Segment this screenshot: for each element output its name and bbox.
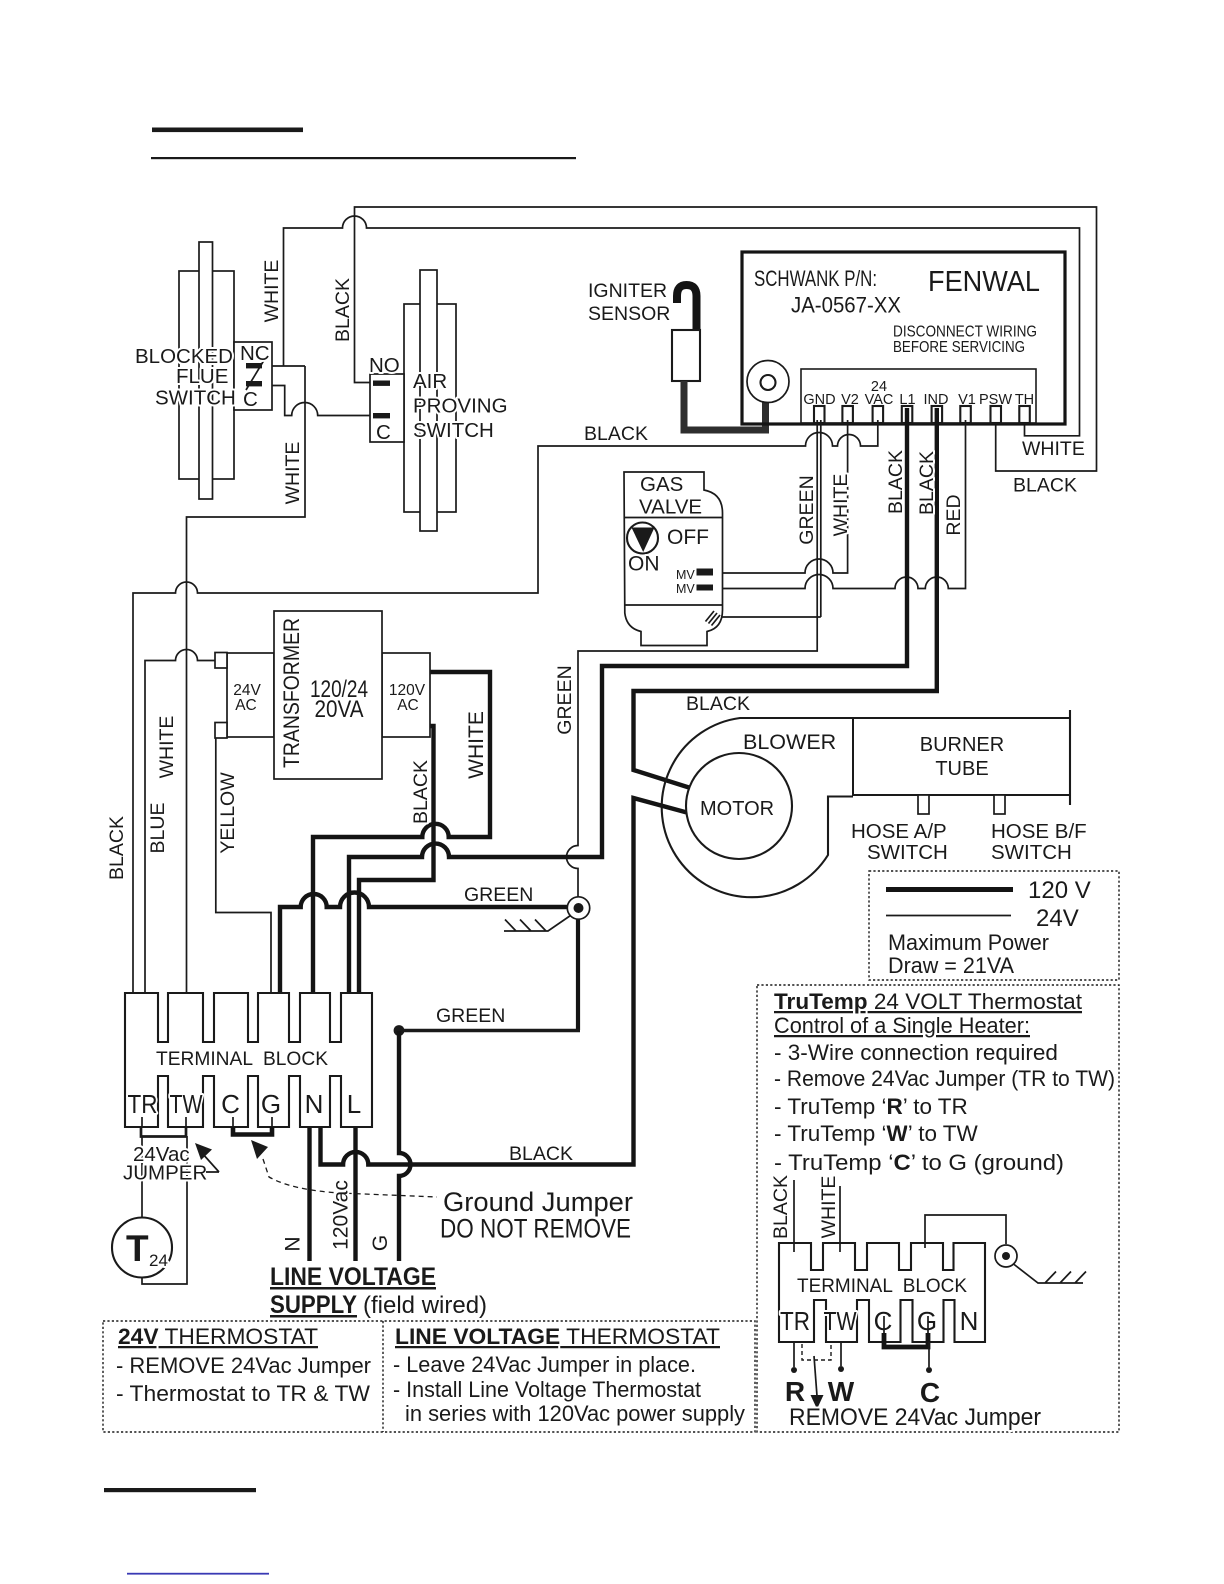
- wire black top rail from air proving NO to FENWAL PSW: [355, 207, 1097, 471]
- svg-text:TERMINAL BLOCK: TERMINAL BLOCK: [797, 1275, 967, 1297]
- label 120V AC: [389, 682, 426, 714]
- wire IND thick to motor: [634, 408, 937, 788]
- svg-text:120Vac: 120Vac: [330, 1180, 353, 1250]
- svg-text:Maximum Power: Maximum Power: [888, 930, 1049, 955]
- wire green horizontal to junction dot: [399, 1029, 580, 1032]
- svg-text:Draw = 21VA: Draw = 21VA: [888, 953, 1014, 978]
- title line 2: [151, 157, 576, 159]
- wire G supply (ground) down: [399, 1031, 411, 1261]
- igniter sensor tip: [677, 285, 697, 332]
- TruTemp info box: [757, 985, 1119, 1432]
- svg-text:BLACK: BLACK: [916, 451, 938, 515]
- label BLACK (TruTemp lead): [770, 1175, 792, 1239]
- igniter sensor cable: [684, 381, 766, 430]
- FENWAL pin labels: [803, 379, 1034, 408]
- label BLACK (N-to-motor wire): [509, 1143, 573, 1165]
- wire NC contact horizontal: [261, 365, 305, 367]
- svg-text:N: N: [282, 1236, 305, 1251]
- svg-text:WHITE: WHITE: [1022, 438, 1085, 460]
- svg-text:C: C: [243, 388, 258, 411]
- svg-text:BLACK: BLACK: [332, 278, 354, 342]
- svg-text:in series with 120Vac power su: in series with 120Vac power supply: [405, 1401, 746, 1426]
- svg-text:C: C: [376, 421, 391, 444]
- wire TruTemp white lead: [839, 1186, 841, 1252]
- svg-text:- TruTemp ‘R’ to TR: - TruTemp ‘R’ to TR: [774, 1094, 968, 1119]
- igniter sensor body: [672, 330, 700, 381]
- wire motor neutral to terminal N: [321, 798, 691, 1165]
- label HOSE B/F SWITCH: [991, 820, 1087, 864]
- wire 120Vac L supply down: [353, 1119, 357, 1261]
- hose A/P stub: [918, 795, 929, 814]
- TruTemp remove arrow: [811, 1356, 824, 1409]
- label TERMINAL BLOCK (main): [156, 1048, 328, 1070]
- gas valve knob: [627, 523, 658, 554]
- wire TR to T24: [141, 1136, 143, 1218]
- svg-text:GREEN: GREEN: [554, 665, 576, 734]
- gas valve ground squiggle: [706, 611, 721, 626]
- label C (flue): [243, 388, 258, 411]
- label Maximum Power Draw = 21VA: [888, 930, 1049, 978]
- FENWAL pin 24VAC: [873, 406, 884, 423]
- label DISCONNECT WIRING BEFORE SERVICING: [893, 324, 1037, 357]
- TruTemp terminal block: [779, 1243, 985, 1342]
- svg-text:N: N: [960, 1306, 979, 1336]
- svg-text:BLOWER: BLOWER: [743, 730, 836, 754]
- wire flue C to air proving C: [261, 386, 374, 416]
- 24Vac jumper TR-TW: [141, 1117, 186, 1137]
- svg-text:RED: RED: [943, 494, 965, 535]
- svg-text:DO NOT REMOVE: DO NOT REMOVE: [440, 1214, 631, 1244]
- label BLACK (PSW wire): [1013, 475, 1077, 497]
- label TRANSFORMER: [279, 618, 304, 768]
- svg-text:L: L: [347, 1089, 361, 1119]
- svg-text:BLACK: BLACK: [509, 1143, 573, 1165]
- FENWAL pin V2: [842, 406, 853, 423]
- label G (supply): [369, 1235, 392, 1251]
- svg-text:BLACK: BLACK: [686, 693, 750, 715]
- label WHITE (TH wire): [1022, 438, 1085, 460]
- bottom rule blue: [127, 1573, 269, 1575]
- label BURNER TUBE: [920, 734, 1004, 780]
- label BLACK (top rail drop): [332, 278, 354, 342]
- svg-text:WHITE: WHITE: [818, 1176, 840, 1239]
- blocked flue switch body: [179, 242, 234, 499]
- ground jumper C-G (thick): [233, 1117, 272, 1135]
- FENWAL terminal strip: [801, 369, 1036, 423]
- svg-text:C: C: [874, 1306, 893, 1336]
- label HOSE A/P SWITCH: [851, 820, 948, 864]
- svg-text:G: G: [369, 1235, 392, 1251]
- svg-text:TRANSFORMER: TRANSFORMER: [279, 618, 304, 768]
- svg-text:TUBE: TUBE: [935, 758, 988, 780]
- label GREEN (ground riser): [554, 665, 576, 734]
- wire GND green (double line) to ground point: [567, 420, 818, 898]
- svg-text:- Thermostat to TR & TW: - Thermostat to TR & TW: [116, 1381, 371, 1406]
- hose B/F stub: [994, 795, 1005, 814]
- svg-text:24V THERMOSTAT: 24V THERMOSTAT: [118, 1324, 318, 1349]
- label 24Vac JUMPER: [123, 1143, 207, 1185]
- label GREEN (GND wire): [796, 475, 818, 544]
- FENWAL pin PSW: [991, 406, 1002, 423]
- svg-text:SWITCH: SWITCH: [413, 419, 494, 442]
- label NO: [369, 354, 400, 377]
- legend box: [869, 871, 1119, 980]
- label TERMINAL BLOCK (TruTemp): [797, 1275, 967, 1297]
- svg-text:TR: TR: [128, 1089, 158, 1119]
- label WHITE (down wire): [282, 442, 304, 505]
- svg-text:YELLOW: YELLOW: [217, 772, 239, 854]
- svg-text:BLACK: BLACK: [106, 816, 128, 880]
- svg-text:GREEN: GREEN: [796, 475, 818, 544]
- blocked flue switch NC/C contact box: [234, 342, 272, 410]
- svg-text:G: G: [917, 1306, 937, 1336]
- label OFF / ON: [628, 526, 709, 576]
- wire gas valve chassis ground to GND pin: [820, 420, 822, 617]
- svg-text:SWITCH: SWITCH: [867, 841, 948, 864]
- TruTemp terminal labels: [780, 1306, 978, 1336]
- burner tube: [853, 710, 1070, 805]
- svg-text:WHITE: WHITE: [282, 442, 304, 505]
- label BLACK (left riser): [106, 816, 128, 880]
- svg-text:AC: AC: [235, 697, 257, 714]
- svg-text:Control of a Single Heater:: Control of a Single Heater:: [774, 1013, 1030, 1038]
- label BLOWER: [743, 730, 836, 754]
- svg-text:TruTemp 24 VOLT Thermostat: TruTemp 24 VOLT Thermostat: [774, 989, 1083, 1014]
- label SCHWANK P/N:: [754, 266, 877, 291]
- label AIR PROVING SWITCH: [413, 370, 508, 442]
- label WHITE (TruTemp lead): [818, 1176, 840, 1239]
- svg-text:FLUE: FLUE: [176, 365, 228, 388]
- label Ground Jumper DO NOT REMOVE: [440, 1187, 633, 1244]
- label 24V THERMOSTAT box: [116, 1324, 371, 1406]
- svg-text:GAS: GAS: [640, 473, 683, 496]
- svg-text:- 3-Wire connection required: - 3-Wire connection required: [774, 1040, 1058, 1065]
- label IGNITER SENSOR: [588, 280, 670, 325]
- label FENWAL: [928, 266, 1040, 298]
- label 120/24 20VA: [310, 676, 368, 723]
- label GREEN (thick ground wire): [464, 884, 533, 906]
- label BLACK (120V thick): [410, 760, 432, 824]
- svg-text:FENWAL: FENWAL: [928, 266, 1040, 298]
- wire green thick to terminal G: [280, 893, 568, 1009]
- svg-text:HOSE A/P: HOSE A/P: [851, 820, 947, 843]
- svg-text:W: W: [828, 1376, 855, 1407]
- svg-text:MV: MV: [676, 568, 695, 582]
- svg-text:SUPPLY: SUPPLY: [270, 1291, 357, 1319]
- svg-text:SWITCH: SWITCH: [155, 387, 236, 410]
- label WHITE (120V thick): [465, 711, 488, 779]
- label 24V AC: [233, 682, 261, 714]
- svg-text:GREEN: GREEN: [464, 884, 533, 906]
- label BLACK (igniter cable): [584, 423, 648, 445]
- wire TruTemp black lead: [793, 1180, 795, 1252]
- svg-text:R: R: [785, 1376, 805, 1407]
- label BLACK (motor feed): [686, 693, 750, 715]
- label BLACK (L1 wire): [885, 450, 907, 514]
- wire gas valve ground tab: [719, 616, 821, 618]
- svg-text:VALVE: VALVE: [639, 496, 702, 519]
- wire L1 thick to terminal L: [349, 408, 907, 1008]
- label WHITE (NC riser): [261, 260, 283, 323]
- ground symbol (blower area): [504, 897, 590, 931]
- svg-text:BLACK: BLACK: [885, 450, 907, 514]
- FENWAL pin IND: [932, 406, 943, 423]
- wire white down from NC to terminal block TW: [187, 366, 306, 1008]
- label YELLOW: [217, 772, 239, 854]
- svg-text:TW: TW: [170, 1089, 203, 1119]
- svg-text:REMOVE 24Vac Jumper: REMOVE 24Vac Jumper: [789, 1404, 1041, 1431]
- svg-text:T: T: [126, 1228, 149, 1269]
- wire TW to T24: [142, 1136, 187, 1284]
- bottom info boxes: [103, 1321, 755, 1432]
- svg-text:- TruTemp ‘C’ to G (ground): - TruTemp ‘C’ to G (ground): [774, 1150, 1064, 1175]
- label GREEN (to line supply G): [436, 1005, 505, 1027]
- svg-text:BLUE: BLUE: [147, 803, 169, 854]
- legend 24V sample: [886, 905, 1079, 932]
- wire N supply down: [307, 1119, 311, 1261]
- bottom rule black: [104, 1488, 256, 1492]
- label REMOVE 24Vac Jumper: [789, 1404, 1041, 1431]
- wire white 120V thick to terminal N: [313, 672, 490, 1008]
- FENWAL pin L1: [902, 406, 913, 423]
- svg-text:WHITE: WHITE: [830, 474, 852, 537]
- label LINE VOLTAGE SUPPLY (field wired): [270, 1263, 487, 1319]
- air proving switch NO/C contact box: [370, 374, 404, 442]
- svg-text:NO: NO: [369, 354, 400, 377]
- gas valve MV terminals: [676, 568, 713, 596]
- svg-text:- Leave 24Vac Jumper in place.: - Leave 24Vac Jumper in place.: [393, 1352, 696, 1377]
- wire white top rail from blocked flue NC to FENWAL TH: [284, 216, 1080, 436]
- thermostat T24: [112, 1218, 172, 1278]
- jumper arrow: [195, 1143, 219, 1172]
- wire yellow transformer 24V to G: [216, 731, 271, 1008]
- transformer T1: [215, 611, 430, 779]
- wire blue transformer 24V to TR: [145, 650, 217, 1009]
- legend 120V sample: [886, 877, 1091, 904]
- air proving switch body: [404, 270, 456, 531]
- gas valve V1: [624, 472, 723, 646]
- FENWAL grommet: [747, 361, 789, 403]
- svg-text:DISCONNECT WIRING: DISCONNECT WIRING: [893, 324, 1037, 341]
- svg-text:TERMINAL BLOCK: TERMINAL BLOCK: [156, 1048, 328, 1070]
- svg-text:WHITE: WHITE: [261, 260, 283, 323]
- svg-text:MV: MV: [676, 582, 695, 596]
- svg-text:24V: 24V: [1036, 905, 1079, 932]
- wire green thin below ground point: [576, 918, 580, 1030]
- svg-text:SCHWANK P/N:: SCHWANK P/N:: [754, 266, 877, 291]
- svg-text:TR: TR: [780, 1306, 810, 1336]
- svg-text:WHITE: WHITE: [156, 716, 178, 779]
- svg-text:BLACK: BLACK: [410, 760, 432, 824]
- svg-text:Ground Jumper: Ground Jumper: [443, 1187, 633, 1217]
- label NC: [240, 342, 270, 365]
- svg-text:WHITE: WHITE: [465, 711, 488, 779]
- label MOTOR: [700, 798, 774, 820]
- svg-text:JUMPER: JUMPER: [123, 1162, 207, 1185]
- svg-text:C: C: [221, 1089, 240, 1119]
- svg-text:JA-0567-XX: JA-0567-XX: [791, 293, 901, 318]
- junction dot (green/ground): [394, 1025, 405, 1036]
- svg-text:N: N: [305, 1089, 324, 1119]
- svg-text:SENSOR: SENSOR: [588, 303, 670, 325]
- wire 24VAC black to terminal block TR: [133, 420, 878, 1008]
- main terminal block: [125, 993, 372, 1127]
- svg-text:ON: ON: [628, 553, 660, 576]
- blower motor circle: [686, 753, 792, 859]
- FENWAL pin TH: [1019, 406, 1030, 423]
- label 120Vac (supply): [330, 1180, 353, 1250]
- title line 1: [152, 128, 303, 133]
- svg-text:G: G: [261, 1089, 281, 1119]
- svg-text:IGNITER: IGNITER: [588, 280, 667, 302]
- svg-text:PROVING: PROVING: [413, 395, 508, 418]
- wire black 120V thick to terminal L: [359, 726, 434, 1008]
- FENWAL pin V1: [960, 406, 971, 423]
- svg-text:SWITCH: SWITCH: [991, 841, 1072, 864]
- svg-text:HOSE B/F: HOSE B/F: [991, 820, 1087, 843]
- FENWAL pin GND: [814, 406, 825, 423]
- svg-text:- TruTemp ‘W’ to TW: - TruTemp ‘W’ to TW: [774, 1121, 979, 1146]
- label BLACK (IND wire): [916, 451, 938, 515]
- svg-text:LINE VOLTAGE: LINE VOLTAGE: [270, 1263, 436, 1291]
- TruTemp dashed jumper: [802, 1344, 831, 1360]
- terminal labels TR TW C G N L: [128, 1089, 362, 1119]
- svg-text:- Remove 24Vac Jumper (TR to T: - Remove 24Vac Jumper (TR to TW): [774, 1066, 1115, 1091]
- TruTemp pigtail R: [791, 1342, 797, 1373]
- TruTemp ground symbol: [995, 1245, 1086, 1283]
- wire TruTemp G to ground: [925, 1215, 1006, 1248]
- label C (air proving): [376, 421, 391, 444]
- svg-text:120 V: 120 V: [1028, 877, 1091, 904]
- label JA-0567-XX: [791, 293, 901, 318]
- TruTemp C-G ground jumper: [884, 1316, 928, 1347]
- TruTemp pigtail C: [926, 1342, 932, 1373]
- svg-text:BLACK: BLACK: [770, 1175, 792, 1239]
- FENWAL control box U1: [742, 252, 1065, 424]
- label BLUE: [147, 803, 169, 854]
- svg-text:BLACK: BLACK: [1013, 475, 1077, 497]
- TruTemp pigtail W: [838, 1342, 844, 1372]
- label N (supply): [282, 1236, 305, 1251]
- svg-text:LINE VOLTAGE THERMOSTAT: LINE VOLTAGE THERMOSTAT: [395, 1324, 720, 1349]
- label GAS VALVE: [639, 473, 702, 519]
- svg-text:AIR: AIR: [413, 370, 447, 393]
- svg-text:- Install Line Voltage Thermos: - Install Line Voltage Thermostat: [393, 1377, 702, 1402]
- svg-text:20VA: 20VA: [315, 696, 364, 723]
- svg-text:OFF: OFF: [667, 526, 709, 549]
- TruTemp text block: [774, 989, 1115, 1175]
- label RED (V1 wire): [943, 494, 965, 535]
- svg-text:NC: NC: [240, 342, 270, 365]
- svg-text:24: 24: [149, 1251, 168, 1270]
- wire V2 white to MV1: [714, 420, 848, 573]
- svg-text:TW: TW: [824, 1306, 857, 1336]
- blower scroll: [662, 718, 853, 897]
- ground jumper dashed arrow: [251, 1140, 437, 1197]
- wire V1 red to MV2: [714, 420, 966, 589]
- label WHITE (left riser): [156, 716, 178, 779]
- svg-text:- REMOVE 24Vac Jumper: - REMOVE 24Vac Jumper: [116, 1353, 371, 1378]
- svg-text:BLACK: BLACK: [584, 423, 648, 445]
- svg-text:(field wired): (field wired): [363, 1292, 487, 1319]
- svg-text:BEFORE SERVICING: BEFORE SERVICING: [893, 339, 1025, 356]
- svg-text:AC: AC: [397, 697, 419, 714]
- label BLOCKED FLUE SWITCH: [135, 345, 236, 410]
- label LINE VOLTAGE THERMOSTAT box: [393, 1324, 746, 1426]
- svg-text:MOTOR: MOTOR: [700, 798, 774, 820]
- svg-text:BURNER: BURNER: [920, 734, 1004, 756]
- svg-text:GREEN: GREEN: [436, 1005, 505, 1027]
- labels R W C: [785, 1376, 940, 1408]
- label WHITE (V2 wire): [830, 474, 852, 537]
